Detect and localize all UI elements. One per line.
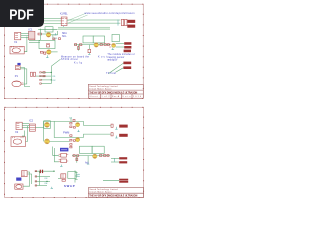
wire N1a [44,17,61,19]
label GND box [16,178,21,181]
diode D3 [73,155,75,157]
ic U1 [28,31,35,40]
transistor Q6 [45,139,50,144]
wire J1-3 [21,37,29,39]
title p1 row2 [89,88,111,90]
wire Q1e [52,35,54,41]
wire F1a [111,157,119,159]
svg-text:X1: X1 [14,40,18,44]
svg-text:SCL: SCL [62,36,67,38]
svg-text:IC2: IC2 [29,119,34,123]
capacitor C9 [111,133,113,136]
svg-text:Sheet:: Sheet: [89,95,100,98]
net names I2C [62,32,67,38]
wire N2a [67,19,120,21]
label ADJ [85,161,89,164]
title p1 main [89,91,137,94]
wire P2 drop1 [23,172,29,186]
label IC1 [28,28,33,32]
box B6 [92,146,104,153]
resistor R2 [125,19,127,25]
resistor R3 [38,33,46,35]
wire Q2 out [51,51,58,53]
resistor R15 [77,155,79,157]
diode D1 [75,44,77,46]
resistor R8 [100,44,102,46]
wire mid top [38,29,57,31]
resistor R4 [40,51,43,53]
wire diag E2 [116,68,124,72]
label col p2 [70,117,72,119]
relay K2 [61,174,66,181]
transistor Q8 [76,138,80,142]
svg-text:IO4: IO4 [44,183,47,185]
wire to note 1 [67,13,86,21]
svg-text:THE HY-SR DFX DWGS MODULE ULTR: THE HY-SR DFX DWGS MODULE ULTRASON [89,194,137,197]
label X2 [15,130,19,134]
wire J2-2 [22,125,29,127]
transistor Q1 [46,33,51,38]
svg-text:IO1: IO1 [52,76,55,78]
pin X2-4 [40,83,42,84]
box B1 [83,36,93,43]
resistor column R12 [70,135,72,137]
netlabel TRIG [124,42,131,45]
mic G4 [15,184,23,189]
pin X2-3 [40,79,42,80]
resistor R20 [73,140,75,142]
svg-text:Seeed Technology Limited: Seeed Technology Limited [89,85,117,88]
svg-text:Kcfg: Kcfg [74,62,83,65]
wire Q4b [116,46,125,48]
resistor R21 [70,146,72,148]
wire J1-2 [21,35,29,37]
capacitor C14 [59,38,61,40]
ground F1 [114,159,116,162]
resistor R17 [104,155,106,157]
wire Q6 vert [43,128,45,142]
capacitor C6 [78,47,80,50]
svg-text:Kout: Kout [98,56,107,59]
wire U2 drop2 [22,131,25,137]
netlabel NET1 [119,157,127,159]
pin X2-1 [40,72,42,73]
transistor Q5 [45,122,50,127]
sheet 1 frame [5,4,144,98]
connector J1 [15,32,21,39]
capacitor C7 [88,49,91,52]
label IO1 [52,76,55,78]
ground U3 [60,165,62,167]
title p2 row2 [90,192,112,194]
mic G2 [12,81,24,87]
svg-text:SDA: SDA [62,32,67,35]
capacitor C4 [34,72,36,76]
pin K2 b [76,175,79,177]
header ladder X2 [41,66,52,83]
buzzer G3 [11,137,26,147]
ic U2 [29,124,36,131]
netlabel VCC [127,20,135,23]
note K right [98,56,107,59]
resistor R19 [73,127,75,129]
capacitor C3 [31,72,33,76]
svg-text:SWAP: SWAP [64,184,75,188]
ground Q2 [46,55,48,57]
wire F2 [103,179,119,181]
box B5 [80,146,93,153]
netlabel OUT2 [123,66,131,69]
netlabel NET3 [119,179,128,181]
header ladder X3 [35,171,55,186]
svg-text:TX host: TX host [106,72,116,75]
junction box A [45,27,53,32]
capacitor C2 [44,52,46,54]
relay K1 [61,17,67,26]
label IO3 [44,178,47,180]
svg-text:K1 REL: K1 REL [60,12,68,15]
svg-text:Dream Maker Space: Dream Maker Space [89,88,111,90]
label P1 [15,74,19,78]
svg-text:PDF: PDF [9,6,34,23]
netlabel NET4 [119,181,128,183]
resistor R9 [104,44,106,46]
svg-text:trasonic sensor: trasonic sensor [107,56,124,59]
note TX [106,72,116,75]
pin X3-1 [35,171,37,172]
wire P1 drop1 [20,68,30,87]
wire mid vert [39,29,41,41]
ground C9 [115,136,117,138]
wire IC3 feed1 [53,147,59,156]
wire U2 out [35,127,43,129]
wire U1 out2 [29,42,40,44]
wire chain2 [72,155,110,157]
note blk line2 [107,56,124,59]
netlabel OUT1 [123,62,131,65]
wire drop2 [88,45,90,50]
svg-text:The module includes ul: The module includes ul [107,54,134,56]
pin X3-2 [35,176,37,177]
wire D2 up [70,118,72,122]
box B4 [68,172,76,179]
wire J2-3 [22,127,29,129]
title block p1 [88,84,143,98]
wire P1 drop2 [20,69,27,84]
wire out CH2 [84,134,111,137]
resistor R5 [43,72,45,73]
wire N1b [44,20,61,22]
netlabel GND2 [124,50,131,53]
title block p2 [88,188,143,198]
wire U1 out1 [29,40,40,42]
box B2 [93,36,104,43]
buzzer G1 [10,46,24,54]
svg-text:Rev A: Rev A [112,95,120,98]
svg-text:ST232 driver: ST232 driver [61,58,78,61]
svg-text:PWM: PWM [63,131,69,135]
svg-text:and cfg 5V: and cfg 5V [107,59,117,61]
svg-text:Adj: Adj [85,161,89,164]
resistor R7 [79,44,82,46]
netlabel ECHO [124,46,131,49]
label K1 [60,12,68,15]
PDF badge [0,0,44,27]
connector P1 [16,63,21,70]
capacitor C10 [40,170,41,173]
resistor column R11 [70,126,72,128]
netlabel NET2 [119,161,127,163]
wire drop1 [78,45,80,51]
connector P2 [22,171,28,177]
wire out CH1 [84,121,111,125]
wire rail V1 [75,170,78,182]
wire K2 in [58,178,61,180]
capacitor C12 [107,155,109,157]
wire J1-1 [21,33,29,35]
netlabel OUTA [119,125,128,128]
resistor column R13 [70,139,72,141]
ground mid [54,33,56,35]
svg-text:Dream Maker Space: Dream Maker Space [90,192,112,194]
resistor R18 [53,38,55,40]
svg-text:IO2: IO2 [52,80,55,82]
pin X3-4 [35,185,37,186]
box Q5 [44,121,51,129]
bus band [58,27,110,30]
wire Q1c [51,31,58,35]
connector J2 [16,122,22,129]
box B3 [112,34,119,41]
wire IC3 feed2 [54,148,58,162]
ground Q4 [112,48,115,50]
title p1 row4 [89,95,141,98]
wire drop3 [76,156,78,163]
label SWAP [64,184,75,188]
pin K2 a [76,173,79,175]
capacitor C11 [42,170,43,173]
pin X3-3 [35,181,37,182]
note blk line1 [107,54,134,56]
wire U1 right [24,37,27,52]
svg-text:D2: D2 [70,117,72,119]
ground drop4 [87,163,89,165]
note blk line3 [107,59,117,61]
wire diag E1 [109,63,124,73]
svg-text:P1: P1 [15,74,19,78]
ic U3 pins b [59,159,69,163]
ground C7 [88,53,90,54]
note URL text [85,12,136,15]
loop wire CH1 [44,121,84,127]
wire ladder diag [51,59,60,66]
ground under K1 [62,26,64,28]
wire F1b [111,161,119,163]
svg-text:1 of 2: 1 of 2 [102,96,110,98]
svg-text:IO3: IO3 [44,178,47,180]
pin X2-2 [40,75,42,76]
label IC2 [29,119,34,123]
ground C8 [115,127,117,129]
note line1 [61,55,90,58]
resistor R1 [118,19,124,25]
ic U3 pins a [59,153,69,157]
sheet 2 frame [5,107,144,197]
svg-text:THE HY-SR DFX DWGS MODULE ULTR: THE HY-SR DFX DWGS MODULE ULTRASON [89,91,137,94]
wire P2 drop2 [27,174,31,184]
netlabel GND [127,25,135,28]
loop wire CH2 [54,121,83,137]
wire N2b [67,22,120,24]
label X1 [14,40,18,44]
resistor R16 [100,155,102,157]
resistor column R14 [70,144,72,146]
wire N1c [44,22,61,24]
resistor column R10 [70,122,72,124]
wire J2-1 [22,123,29,125]
resistor R6 [43,75,45,76]
transistor Q4 [109,43,115,47]
wire Q4a [116,43,125,45]
diode D2 [73,119,75,121]
title p1 row1 [89,85,117,88]
svg-text:IC1: IC1 [28,28,33,32]
label EEPROM box [60,148,68,152]
title p2 main [89,194,137,197]
transistor Q7 [76,123,80,127]
wire to note 2 [67,15,87,24]
transistor Q2 [47,50,52,55]
svg-text:X2: X2 [15,130,19,134]
ground mid p2 [77,130,79,132]
netlabel OUTB [119,134,128,137]
ground X3 [51,187,53,189]
capacitor C1 [46,44,50,47]
wire chain1 [74,44,110,46]
wire U2 drop [26,126,28,142]
label PWM [63,131,69,135]
label IO2 [52,80,55,82]
note line2 [61,58,78,61]
module box M1 [39,40,55,48]
wire drop4 [87,156,89,165]
label IO4 [44,183,47,185]
wire C4 to header [36,75,41,77]
capacitor C8 [111,124,113,127]
transistor Q9 [93,154,97,158]
title p2 row1 [90,188,118,191]
label SCL [54,38,59,40]
transistor Q3 [94,43,98,47]
wire Q6 row [50,140,70,142]
svg-text:www.seeedstudio.com/depot/ultr: www.seeedstudio.com/depot/ultrason [85,12,136,15]
capacitor C5 [107,44,109,46]
capacitor C13 [76,158,78,161]
note line3 [74,62,83,65]
